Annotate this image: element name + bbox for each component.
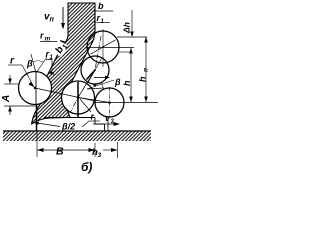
thick radius stroke: [87, 70, 96, 80]
line joining left and bottom-left centres: [35, 88, 95, 101]
svg-text:r: r: [40, 31, 44, 41]
bottom-left circle: [62, 81, 95, 114]
upper tool: hatched vertical bar with inclined wedge face, merged with deformed blank: [32, 3, 96, 124]
svg-text:A: A: [1, 95, 12, 103]
beta angle near bottom circles: [87, 80, 114, 89]
white disks of all circles (cover hatch): [19, 72, 52, 105]
svg-text:б): б): [81, 160, 92, 174]
svg-text:b: b: [98, 1, 104, 11]
top circle: [87, 31, 119, 63]
beta angle at left circle top: [31, 54, 36, 73]
left circle (blank, radius r): [19, 72, 52, 105]
svg-text:п: п: [50, 17, 55, 24]
arrow in middle circle: [94, 77, 107, 79]
leader of r to centre: [22, 65, 34, 87]
middle circle: [81, 56, 109, 84]
dimension h_p: [145, 37, 147, 102]
svg-text:r: r: [91, 112, 95, 122]
reference tick under delta-h: [117, 36, 147, 38]
svg-text:h: h: [138, 76, 148, 82]
dimension h: [130, 48, 132, 102]
ground line: [3, 130, 151, 132]
lower plate top surface: [44, 117, 95, 119]
inclined dash-dot axis through ball centres: [70, 36, 101, 113]
svg-text:β: β: [114, 77, 121, 87]
svg-text:β: β: [26, 59, 33, 69]
dimension A (left, outside arrows): [4, 83, 19, 85]
svg-text:Δh: Δh: [122, 22, 132, 34]
b1 label rotated along wedge: [52, 40, 70, 58]
svg-text:β/2: β/2: [61, 122, 75, 132]
top circle white disk (behind tool bar): [87, 31, 119, 63]
dimension h3: [117, 142, 119, 158]
vertical press line through left circle down to ground: [35, 72, 37, 104]
svg-text:3: 3: [98, 152, 102, 159]
ground hatching: [3, 132, 151, 142]
svg-text:B: B: [56, 146, 64, 158]
dimension B: [36, 131, 38, 157]
diameter parallel to wedge face: [88, 58, 102, 83]
bottom-right circle (finished ball): [95, 88, 124, 117]
svg-text:п: п: [143, 68, 150, 72]
svg-text:h: h: [122, 80, 132, 86]
plate right step profile: [95, 118, 105, 132]
